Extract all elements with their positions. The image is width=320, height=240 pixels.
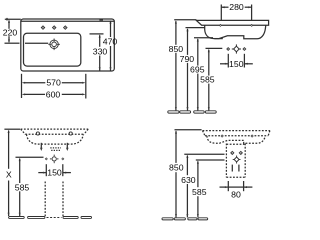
basin rim lower line (hidden) — [25, 133, 84, 135]
basin rim top (hidden side) — [203, 130, 270, 132]
tap hole mark right (side) — [242, 47, 246, 51]
siphon cover bottom (hidden) — [226, 176, 245, 178]
basin rim left end (hidden) — [203, 131, 206, 136]
dim 470 line — [110, 20, 112, 70]
svg-text:150: 150 — [229, 59, 244, 69]
floor line (bottom-left) — [9, 217, 92, 219]
pedestal right edge (hidden) — [62, 182, 64, 217]
svg-text:150: 150 — [47, 168, 62, 178]
dim 630 extension — [184, 153, 224, 155]
rim hole mark right (hidden) — [251, 134, 254, 137]
dim 850 extension — [174, 19, 196, 21]
fitting hole right — [239, 151, 243, 155]
tap hole mark center (side) — [232, 44, 241, 53]
floor line (top-right) — [168, 111, 216, 113]
dim 695 extension — [194, 37, 213, 39]
drain symbol — [48, 39, 60, 51]
svg-text:850: 850 — [169, 163, 184, 173]
dim 570/600 right extension — [85, 74, 87, 99]
svg-text:330: 330 — [93, 46, 108, 56]
basin bowl bottom (hidden) — [27, 134, 84, 144]
basin bottom edge detail — [215, 38, 223, 40]
dim 585 line (lower) — [197, 160, 199, 217]
dim 850 line (lower) — [175, 130, 177, 217]
dim 790 extension — [186, 27, 205, 29]
mounting bolt right — [66, 143, 69, 151]
tap hole right (front) — [61, 157, 64, 160]
rim hole mark left (hidden) — [221, 134, 224, 137]
basin body (hidden side) — [207, 136, 265, 144]
basin top edge (hidden front) — [21, 128, 89, 130]
siphon cover left (hidden) — [225, 144, 227, 178]
svg-text:80: 80 — [231, 190, 241, 200]
tap hole right — [64, 26, 67, 29]
drain pipe left — [231, 165, 233, 172]
dim 220 bottom extension — [5, 42, 49, 44]
washbasin rim (side view) — [196, 20, 268, 25]
dim 150 line (side) — [220, 63, 253, 65]
dim 585 line (front) — [19, 158, 21, 216]
tap hole left (front) — [45, 157, 48, 160]
dim X line — [8, 130, 10, 217]
fixing hole left — [36, 132, 39, 135]
dim 330 line — [99, 34, 101, 70]
dim 695 line — [197, 38, 199, 110]
basin rim lower line (hidden side) — [205, 135, 268, 137]
tap hole left — [41, 26, 44, 29]
dim 585 extension (lower) — [196, 159, 225, 161]
hidden overflow detail — [50, 148, 61, 151]
dim 600 line — [22, 93, 86, 95]
dim 80 line — [220, 186, 253, 188]
mounting bolt left — [40, 143, 43, 151]
svg-text:570: 570 — [46, 78, 61, 88]
dim 150 extensions (side) — [228, 54, 244, 68]
tap hole center (front) — [50, 155, 59, 164]
rim hole mark left — [219, 24, 222, 27]
svg-text:220: 220 — [3, 28, 18, 38]
rim hole mark right — [250, 24, 253, 27]
basin right end (hidden) — [84, 129, 88, 134]
drain pipe right — [238, 165, 240, 172]
dim 150 line (front) — [38, 172, 71, 174]
fixing hole right — [69, 132, 72, 135]
dim 280 right extension — [251, 5, 253, 21]
dim 150 extensions (front) — [46, 164, 63, 176]
basin rim right end (hidden) — [268, 131, 270, 136]
svg-text:695: 695 — [190, 65, 205, 75]
dim 790 line — [187, 28, 189, 111]
svg-text:850: 850 — [169, 44, 184, 54]
band mark at 330 — [99, 19, 103, 21]
dim 280 line — [221, 6, 251, 8]
dim 850 extension (lower) — [175, 129, 202, 131]
dim 280 left extension — [220, 5, 222, 21]
floor line (bottom-right) — [162, 218, 208, 220]
drain mark (siphon) — [233, 156, 241, 164]
fitting hole left — [230, 151, 234, 155]
svg-text:630: 630 — [181, 175, 196, 185]
dim X extension — [4, 128, 20, 130]
pedestal left edge (hidden) — [44, 182, 46, 217]
tap hole mark left (side) — [226, 47, 230, 51]
inner basin bowl — [24, 33, 81, 66]
dim 585 line (upper) — [208, 49, 210, 111]
svg-text:470: 470 — [103, 37, 118, 47]
basin body (side view) — [205, 25, 266, 39]
back rim line — [21, 20, 115, 22]
dim 220 line — [8, 20, 10, 43]
dim 585 extension (upper) — [206, 47, 223, 49]
washbasin outer outline (top view) — [21, 19, 115, 71]
svg-text:X: X — [6, 170, 12, 180]
siphon cover right (hidden) — [244, 144, 246, 178]
dim 850 line — [175, 20, 177, 110]
svg-text:600: 600 — [46, 90, 61, 100]
dim 570 line — [22, 82, 86, 84]
svg-text:280: 280 — [229, 2, 244, 12]
basin left end (hidden) — [21, 129, 26, 134]
dim 570/600 left extension — [21, 74, 23, 98]
svg-text:790: 790 — [180, 54, 195, 64]
dim 330 extension — [90, 33, 104, 35]
tap hole center — [53, 26, 56, 29]
siphon cover top (hidden) — [226, 143, 245, 145]
svg-text:585: 585 — [200, 75, 215, 85]
dim 630 line — [186, 155, 188, 218]
svg-text:585: 585 — [192, 187, 207, 197]
dim 220 top extension — [5, 18, 21, 21]
dim 80 extensions — [228, 181, 243, 191]
svg-text:585: 585 — [15, 182, 30, 192]
dim 585 extension (front) — [16, 156, 44, 158]
